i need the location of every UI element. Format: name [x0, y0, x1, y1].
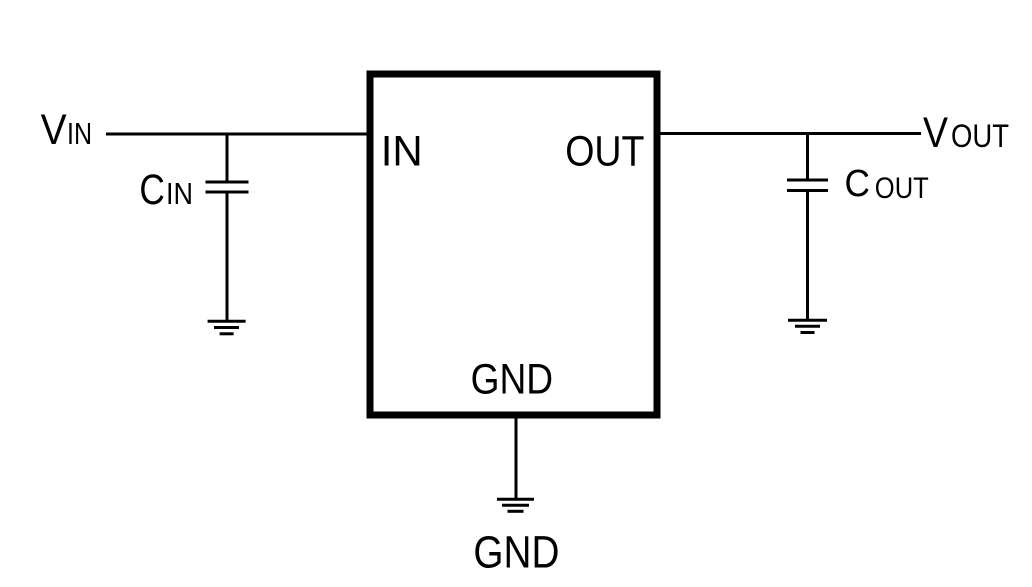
svg-text:V: V — [923, 109, 948, 157]
capacitor CIN plates — [206, 181, 249, 184]
svg-text:IN: IN — [381, 127, 423, 175]
svg-text:GND: GND — [473, 527, 559, 578]
svg-text:OUT: OUT — [951, 118, 1009, 154]
svg-text:V: V — [41, 106, 67, 154]
wire COUT bottom lead — [806, 192, 809, 321]
capacitor COUT plates — [787, 179, 828, 182]
svg-text:IN: IN — [166, 176, 193, 211]
ground (CIN) — [208, 321, 246, 334]
svg-text:GND: GND — [471, 356, 553, 404]
wire VIN to IN pin — [106, 133, 368, 136]
ground (COUT) — [788, 320, 827, 332]
wire OUT pin to VOUT — [656, 132, 921, 135]
svg-text:C: C — [139, 166, 165, 214]
svg-text:IN: IN — [67, 116, 92, 151]
wire GND pin lead — [515, 418, 518, 499]
wire CIN bottom lead — [226, 193, 229, 321]
svg-text:OUT: OUT — [875, 172, 929, 205]
svg-text:OUT: OUT — [565, 127, 644, 175]
regulator IC U1 box — [370, 74, 657, 415]
svg-text:C: C — [845, 163, 871, 205]
wire COUT top lead — [806, 134, 809, 180]
ground (GND pin) — [497, 499, 534, 511]
wire CIN top lead — [226, 134, 229, 181]
